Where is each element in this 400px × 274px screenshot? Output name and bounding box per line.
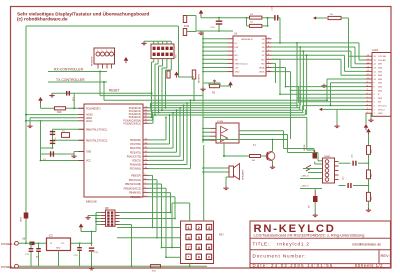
svg-text:PD2(INT0): PD2(INT0) [130, 148, 141, 150]
svg-text:PC0(ADC0): PC0(ADC0) [129, 107, 142, 110]
svg-text:IC30: IC30 [184, 25, 190, 28]
svg-text:PB7(XTAL2/TOSC2): PB7(XTAL2/TOSC2) [86, 139, 107, 142]
svg-text:GND: GND [56, 248, 61, 250]
svg-text:3: 3 [106, 50, 107, 52]
svg-text:R/W: R/W [378, 98, 382, 100]
svg-text:Sheets 1/2: Sheets 1/2 [358, 263, 384, 268]
svg-text:RESERVE: RESERVE [92, 56, 94, 66]
svg-text:+485_U: +485_U [301, 176, 309, 178]
svg-text:RD: RD [261, 63, 265, 65]
svg-text:2: 2 [102, 50, 103, 52]
svg-text:2: 2 [367, 108, 368, 110]
svg-text:POWER-2: POWER-2 [1, 265, 15, 269]
svg-text:LCD NA: LCD NA [378, 55, 386, 58]
svg-text:GND: GND [378, 113, 383, 115]
svg-text:rnkeylcd1.2: rnkeylcd1.2 [277, 242, 310, 247]
svg-text:IC2: IC2 [49, 235, 53, 238]
svg-text:SPEAKER: SPEAKER [242, 169, 245, 180]
svg-text:VO: VO [61, 243, 64, 245]
svg-text:VO Kontr: VO Kontr [378, 105, 387, 108]
svg-text:11: 11 [367, 74, 369, 76]
svg-text:PD5(T1): PD5(T1) [132, 161, 141, 163]
svg-text:VCC: VCC [86, 161, 91, 163]
svg-text:LCD2: LCD2 [372, 49, 379, 52]
svg-text:C5: C5 [55, 138, 57, 140]
svg-text:+5V: +5V [235, 68, 239, 70]
svg-text:AREF: AREF [86, 117, 93, 120]
svg-text:PC1(ADC1): PC1(ADC1) [129, 110, 142, 113]
svg-text:4: 4 [111, 50, 112, 52]
svg-text:4: 4 [268, 46, 269, 48]
svg-text:3: 3 [367, 104, 368, 106]
svg-text:PC6(/RESET): PC6(/RESET) [86, 108, 101, 110]
svg-text:8: 8 [268, 62, 269, 64]
svg-text:PD6(AIN0): PD6(AIN0) [130, 164, 141, 167]
svg-text:KEY: KEY [219, 234, 224, 237]
svg-text:1: 1 [367, 112, 368, 114]
svg-text:13: 13 [367, 66, 369, 68]
svg-text:MEGA8: MEGA8 [86, 200, 97, 204]
svg-text:PD0(RXD): PD0(RXD) [130, 140, 141, 142]
svg-text:(c) robotikhardware.de: (c) robotikhardware.de [17, 16, 68, 21]
svg-text:LEDK: LEDK [259, 72, 265, 74]
svg-text:2: 2 [268, 38, 269, 40]
svg-text:16: 16 [367, 55, 369, 57]
svg-text:PC4(ADC4/SDA): PC4(ADC4/SDA) [123, 119, 141, 122]
svg-text:GND: GND [86, 152, 91, 154]
svg-text:5: 5 [268, 50, 269, 52]
svg-text:5: 5 [367, 97, 368, 99]
svg-text:15: 15 [367, 59, 369, 61]
svg-text:VEE Kontrast: VEE Kontrast [235, 62, 249, 65]
svg-text:GNS6584-N: GNS6584-N [241, 39, 253, 41]
svg-text:robotikhardware.de: robotikhardware.de [352, 243, 381, 247]
svg-text:10: 10 [367, 78, 369, 80]
svg-text:6: 6 [268, 54, 269, 56]
svg-text:Date: 24.02.2005 14:01:55: Date: 24.02.2005 14:01:55 [253, 263, 334, 268]
svg-text:PB6(XTAL1/TOSC1): PB6(XTAL1/TOSC1) [86, 128, 107, 131]
svg-text:PD4(XCK/T0): PD4(XCK/T0) [127, 156, 141, 158]
svg-text:+485_0: +485_0 [301, 186, 309, 188]
svg-text:PB2(SS/OC1B): PB2(SS/OC1B) [125, 184, 141, 186]
svg-text:LEDA: LEDA [259, 67, 265, 70]
svg-text:PC2(ADC2): PC2(ADC2) [129, 113, 142, 116]
svg-text:PB4(MISO): PB4(MISO) [129, 193, 141, 195]
svg-text:TITLE:: TITLE: [253, 242, 270, 247]
svg-text:10: 10 [268, 70, 270, 72]
svg-text:Document Number:: Document Number: [253, 253, 307, 258]
svg-text:12: 12 [367, 70, 369, 72]
svg-text:REV:: REV: [381, 253, 390, 258]
svg-text:R10: R10 [57, 111, 62, 114]
svg-text:7: 7 [268, 58, 269, 60]
svg-text:3: 3 [268, 42, 269, 44]
svg-text:4: 4 [367, 101, 368, 103]
svg-text:PD7(AIN1): PD7(AIN1) [130, 168, 141, 171]
svg-text:AVCC: AVCC [86, 120, 93, 123]
svg-text:LCD AN: LCD AN [378, 59, 386, 62]
svg-text:SH: SH [235, 59, 238, 61]
svg-text:LED9: LED9 [21, 216, 23, 222]
svg-text:RESET: RESET [109, 89, 120, 93]
svg-text:PD1(TXD): PD1(TXD) [130, 144, 141, 146]
svg-text:PD3(INT1): PD3(INT1) [130, 152, 141, 154]
svg-text:GND: GND [235, 72, 240, 74]
svg-text:6: 6 [367, 93, 368, 95]
svg-text:POWER-1: POWER-1 [1, 242, 15, 246]
svg-text:8: 8 [367, 85, 368, 87]
svg-text:PC5(ADC5/SCL): PC5(ADC5/SCL) [124, 122, 142, 125]
svg-text:PB0(ICP): PB0(ICP) [131, 176, 141, 178]
svg-text:1: 1 [97, 50, 98, 52]
svg-text:7: 7 [367, 89, 368, 91]
svg-text:9: 9 [268, 66, 269, 68]
svg-text:14: 14 [367, 63, 369, 65]
svg-text:LCD/Tastaturboard mit RS232/RS: LCD/Tastaturboard mit RS232/RS485/I2C u.… [254, 233, 365, 238]
svg-text:9: 9 [367, 82, 368, 84]
svg-text:RESERVE: RESERVE [199, 73, 201, 83]
svg-text:RS: RS [235, 55, 239, 57]
svg-text:VDD+5: VDD+5 [378, 109, 386, 111]
svg-text:PB1(OC1A): PB1(OC1A) [129, 179, 142, 182]
svg-text:PC3(ADC3): PC3(ADC3) [129, 116, 142, 119]
svg-text:PB5(SCK): PB5(SCK) [130, 197, 141, 199]
svg-text:LED4B: LED4B [304, 144, 306, 151]
svg-text:PB3(MOSI/OC2): PB3(MOSI/OC2) [124, 188, 142, 190]
svg-text:AGND: AGND [86, 114, 93, 117]
svg-text:NC: NC [261, 59, 265, 61]
